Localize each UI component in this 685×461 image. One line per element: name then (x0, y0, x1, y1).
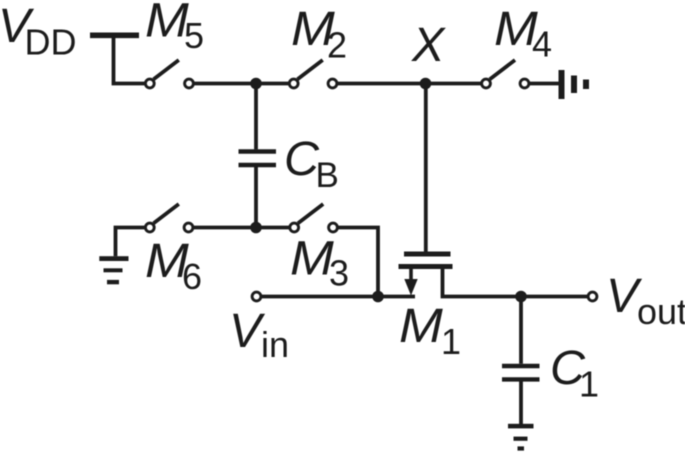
wire left ground up and right to M6 (116, 228, 146, 257)
wire node D to Vout terminal (521, 295, 588, 299)
label M6 (145, 234, 202, 297)
terminal Vout (588, 292, 597, 301)
label M5 (145, 0, 204, 56)
wire C1 down to bottom ground (519, 381, 523, 424)
wire X down to M1 gate (424, 84, 428, 254)
label VDD (0, 0, 77, 63)
label Vin (229, 304, 289, 365)
wire M4 to right ground (529, 82, 560, 86)
switch M6 (145, 204, 193, 232)
svg-text:in: in (261, 324, 289, 365)
label X (411, 18, 446, 72)
wire node D down to C1 (519, 297, 523, 364)
label Vout (606, 269, 685, 332)
ground (bottom) (508, 424, 534, 451)
label M2 (291, 2, 347, 66)
svg-text:5: 5 (184, 15, 204, 56)
ground (right, rotated sideways) (559, 70, 590, 99)
label C1 (550, 341, 599, 405)
svg-text:out: out (637, 291, 685, 332)
switch M2 (289, 60, 337, 88)
svg-text:2: 2 (327, 25, 347, 66)
wire node A to M2 (256, 82, 289, 86)
svg-text:4: 4 (532, 24, 552, 65)
wire M6 to node B (193, 226, 251, 230)
VDD supply bar (90, 32, 139, 38)
wire M5 to node A (194, 82, 252, 86)
node A (top junction) (250, 78, 262, 90)
switch M5 (145, 60, 193, 88)
svg-text:DD: DD (25, 22, 77, 63)
wire node B to M3 (256, 226, 290, 230)
svg-text:X: X (411, 18, 446, 72)
label M4 (494, 2, 552, 65)
capacitor C1 (502, 366, 540, 379)
wire node A down to CB (254, 84, 258, 150)
switch M3 (290, 204, 338, 232)
wire VDD bar down and right to M5 (114, 36, 145, 84)
svg-text:M: M (399, 299, 443, 353)
capacitor CB (239, 152, 277, 166)
svg-text:M: M (145, 0, 189, 48)
ground (left) (99, 256, 128, 284)
svg-text:3: 3 (329, 253, 349, 294)
svg-text:B: B (316, 156, 339, 195)
node X (420, 78, 432, 90)
transistor M1 (399, 254, 518, 297)
svg-text:1: 1 (579, 364, 599, 405)
terminal Vin (252, 292, 261, 301)
svg-text:1: 1 (441, 321, 461, 362)
switch M4 (482, 60, 529, 88)
node B (CB bottom junction) (250, 222, 262, 234)
label M1 (399, 299, 461, 362)
wire Vin to M1 source (261, 295, 415, 299)
wire M2 to node X (337, 82, 421, 86)
svg-text:M: M (290, 232, 334, 286)
label M3 (290, 232, 349, 294)
wire X to M4 (426, 82, 482, 86)
label CB (284, 132, 339, 195)
wire M3 right then down to node C (338, 228, 379, 297)
node C (Vin/M3 junction) (372, 291, 384, 303)
wire CB down to node B (254, 167, 258, 228)
node D (Vout junction) (515, 291, 527, 303)
svg-text:6: 6 (182, 256, 202, 297)
